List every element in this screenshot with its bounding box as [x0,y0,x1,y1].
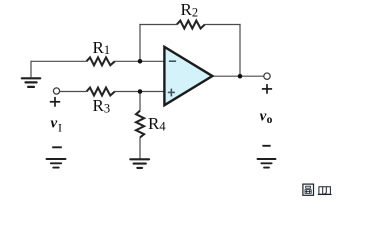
svg-text:v: v [51,116,58,132]
svg-text:v: v [260,109,267,125]
svg-text:o: o [267,114,273,126]
svg-text:I: I [58,120,62,134]
